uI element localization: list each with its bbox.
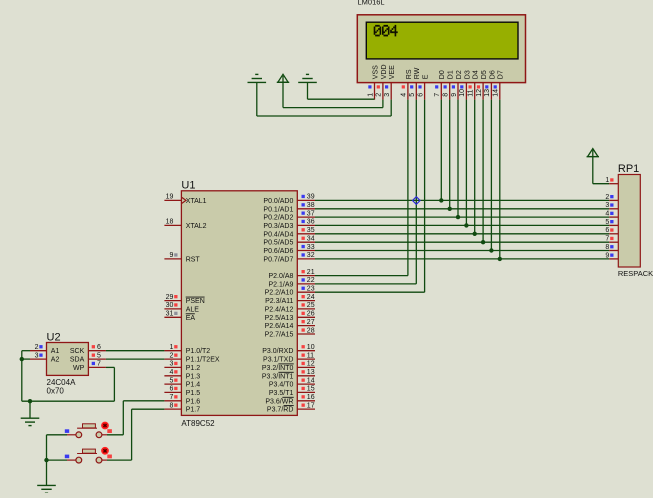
svg-text:P0.7/AD7: P0.7/AD7 — [263, 256, 293, 263]
U1 pin 15 P3.5/T1 — [297, 386, 315, 393]
U1 pin 36 P0.3/AD3 — [297, 219, 315, 226]
wire D1 bus row — [315, 208, 609, 210]
wire P1.6 net — [123, 400, 164, 402]
svg-text:P2.5/A13: P2.5/A13 — [265, 315, 294, 322]
svg-text:XTAL1: XTAL1 — [186, 198, 207, 205]
svg-text:39: 39 — [307, 194, 315, 201]
LCD text 004 digit 0 — [382, 25, 390, 36]
svg-text:8: 8 — [443, 93, 450, 97]
junction ground — [28, 399, 32, 403]
svg-text:12: 12 — [307, 361, 315, 368]
svg-text:SCK: SCK — [70, 348, 85, 355]
svg-text:6: 6 — [605, 227, 609, 234]
svg-text:29: 29 — [166, 294, 174, 301]
svg-text:P0.1/AD1: P0.1/AD1 — [263, 206, 293, 213]
ground (U2 net) — [21, 418, 40, 425]
node marker diamond — [413, 197, 421, 205]
RP1 pin 3 — [605, 202, 618, 209]
wire D7 bus row — [315, 258, 609, 260]
svg-text:3: 3 — [605, 202, 609, 209]
wire — [592, 157, 594, 184]
U1 pin 23 P2.2/A10 — [297, 286, 315, 293]
svg-text:5: 5 — [97, 352, 101, 359]
svg-text:6: 6 — [169, 386, 173, 393]
U1 pin 6 P1.5 — [164, 386, 181, 393]
LCD pin 1 VSS — [367, 65, 379, 100]
svg-text:P0.6/AD6: P0.6/AD6 — [263, 248, 293, 255]
svg-text:XTAL2: XTAL2 — [186, 223, 207, 230]
svg-text:AT89C52: AT89C52 — [181, 419, 215, 428]
svg-text:31: 31 — [166, 311, 174, 318]
wire A2 — [22, 358, 30, 360]
svg-text:23: 23 — [307, 286, 315, 293]
LCD pin 9 D2 — [451, 70, 463, 99]
RP1 pin 2 — [605, 194, 618, 201]
svg-text:33: 33 — [307, 244, 315, 251]
U1 pin 11 P3.1/TXD — [297, 352, 315, 359]
junction A2 net — [20, 357, 24, 361]
wire — [390, 100, 392, 116]
wire — [307, 83, 309, 100]
U1 pin 32 P0.7/AD7 — [297, 252, 315, 259]
svg-text:WP: WP — [73, 365, 85, 372]
svg-text:D0: D0 — [439, 70, 446, 79]
junction D6 — [489, 248, 493, 252]
svg-text:P2.0/A8: P2.0/A8 — [268, 273, 293, 280]
U1 pin 37 P0.2/AD2 — [297, 210, 315, 217]
wire D4 bus row — [315, 233, 609, 235]
svg-text:7: 7 — [434, 93, 441, 97]
svg-text:37: 37 — [307, 210, 315, 217]
svg-text:P3.5/T1: P3.5/T1 — [269, 390, 294, 397]
svg-text:D1: D1 — [448, 70, 455, 79]
svg-text:D2: D2 — [456, 70, 463, 79]
svg-text:P3.6/WR: P3.6/WR — [265, 398, 293, 405]
svg-text:D7: D7 — [498, 70, 505, 79]
U1 pin 3 P1.2 — [164, 361, 181, 368]
svg-text:4: 4 — [169, 369, 173, 376]
svg-text:P1.2: P1.2 — [186, 365, 201, 372]
svg-text:P0.0/AD0: P0.0/AD0 — [263, 198, 293, 205]
junction D0 — [439, 198, 443, 202]
svg-text:P2.2/A10: P2.2/A10 — [265, 290, 294, 297]
U1 pin 30 ALE — [164, 302, 181, 309]
wire — [21, 351, 23, 402]
push button 1 — [65, 422, 112, 437]
wire ground stem — [29, 401, 31, 418]
U1 pin 34 P0.5/AD5 — [297, 236, 315, 243]
svg-text:4: 4 — [605, 211, 609, 218]
power +5V (RP1 common) — [587, 149, 599, 157]
eeprom U2 body — [47, 343, 89, 376]
junction D1 — [448, 207, 452, 211]
svg-text:RW: RW — [414, 67, 421, 79]
svg-text:SDA: SDA — [70, 357, 85, 364]
svg-text:3: 3 — [384, 93, 391, 97]
wire — [256, 83, 258, 116]
U1 pin 21 P2.0/A8 — [297, 269, 315, 276]
U1 pin 13 P3.3/INT1 — [297, 369, 315, 376]
svg-text:8: 8 — [605, 244, 609, 251]
wire D5 vertical — [482, 100, 484, 243]
U1 pin 16 P3.6/WR — [297, 394, 315, 401]
wire RW net — [415, 100, 417, 284]
LCD pin 14 D7 — [493, 70, 505, 99]
svg-text:32: 32 — [307, 252, 315, 259]
RP1 pin 1 — [605, 177, 618, 184]
svg-text:4: 4 — [401, 93, 408, 97]
LCD text 004 digit 4 — [390, 25, 397, 36]
svg-text:U1: U1 — [181, 179, 195, 191]
RP1 pin 8 — [605, 244, 618, 251]
U1 pin 28 P2.7/A15 — [297, 327, 315, 334]
LCD pin 12 D5 — [476, 70, 488, 99]
svg-text:35: 35 — [307, 227, 315, 234]
svg-text:RST: RST — [186, 256, 201, 263]
svg-text:P2.6/A14: P2.6/A14 — [265, 323, 294, 330]
svg-text:P3.1/TXD: P3.1/TXD — [263, 357, 293, 364]
LCD pin 8 D1 — [443, 70, 455, 99]
U1 XTAL1 clock mark — [182, 197, 186, 203]
LCD pin 5 RW — [409, 67, 421, 99]
svg-text:7: 7 — [97, 361, 101, 368]
svg-text:9: 9 — [451, 93, 458, 97]
svg-text:RESPACK-8: RESPACK-8 — [618, 269, 653, 278]
U1 pin 7 P1.6 — [164, 394, 181, 401]
LCD pin 4 RS — [401, 69, 413, 99]
svg-text:P1.7: P1.7 — [186, 407, 201, 414]
svg-text:12: 12 — [476, 89, 483, 97]
U1 pin 9 RST — [164, 252, 181, 259]
microcontroller U1 body — [181, 191, 297, 416]
wire D3 vertical — [465, 100, 467, 226]
svg-text:A1: A1 — [51, 348, 60, 355]
svg-text:28: 28 — [307, 327, 315, 334]
svg-text:9: 9 — [169, 252, 173, 259]
wire E net — [424, 100, 426, 293]
wire button left net — [47, 434, 68, 436]
wire D1 vertical — [449, 100, 451, 209]
wire A1 — [22, 350, 30, 352]
wire P1.7 net — [132, 408, 165, 410]
RP1 pin 5 — [605, 219, 618, 226]
LCD LM016L body — [357, 15, 525, 83]
svg-text:34: 34 — [307, 236, 315, 243]
svg-text:D3: D3 — [464, 70, 471, 79]
U1 pin 14 P3.4/T0 — [297, 377, 315, 384]
RP1 pin 9 — [605, 252, 618, 259]
LCD text 004 digit 0 — [374, 25, 381, 36]
U2 pin 7 WP — [88, 361, 106, 368]
svg-text:P3.2/INT0: P3.2/INT0 — [262, 365, 294, 372]
U1 pin 35 P0.4/AD4 — [297, 227, 315, 234]
svg-text:P3.0/RXD: P3.0/RXD — [262, 348, 293, 355]
resistor pack RP1 body — [618, 175, 640, 268]
wire D7 vertical — [499, 100, 501, 259]
svg-text:P1.4: P1.4 — [186, 382, 201, 389]
wire D2 bus row — [315, 216, 609, 218]
LCD pin 2 VDD — [376, 64, 388, 99]
wire WP — [106, 366, 115, 368]
wire D5 bus row — [315, 241, 609, 243]
U1 pin 2 P1.1/T2EX — [164, 352, 181, 359]
LCD pin 3 VEE — [384, 65, 396, 100]
svg-text:21: 21 — [307, 269, 315, 276]
svg-text:P2.3/A11: P2.3/A11 — [265, 298, 293, 305]
svg-text:2: 2 — [169, 352, 173, 359]
svg-text:E: E — [423, 74, 430, 79]
LCD screen — [366, 22, 518, 59]
wire D6 vertical — [490, 100, 492, 251]
svg-text:5: 5 — [409, 93, 416, 97]
U1 pin 27 P2.6/A14 — [297, 319, 315, 326]
svg-text:D6: D6 — [489, 70, 496, 79]
junction D4 — [473, 232, 477, 236]
svg-text:38: 38 — [307, 202, 315, 209]
svg-text:VSS: VSS — [372, 65, 379, 79]
svg-text:9: 9 — [605, 252, 609, 259]
svg-text:5: 5 — [605, 219, 609, 226]
svg-text:VEE: VEE — [389, 65, 396, 79]
wire — [382, 100, 384, 108]
svg-text:VDD: VDD — [381, 64, 388, 79]
svg-text:P2.1/A9: P2.1/A9 — [268, 281, 293, 288]
svg-text:6: 6 — [417, 93, 424, 97]
svg-text:2: 2 — [605, 194, 609, 201]
U1 pin 39 P0.0/AD0 — [297, 194, 315, 201]
wire D0 vertical — [440, 100, 442, 201]
svg-text:P0.5/AD5: P0.5/AD5 — [263, 240, 293, 247]
LCD pin 11 D4 — [468, 70, 480, 99]
svg-text:3: 3 — [169, 361, 173, 368]
svg-text:19: 19 — [166, 194, 174, 201]
svg-text:P3.4/T0: P3.4/T0 — [269, 382, 294, 389]
junction D3 — [464, 223, 468, 227]
push button 2 — [65, 448, 112, 463]
svg-text:17: 17 — [307, 402, 315, 409]
svg-text:EA: EA — [186, 315, 196, 322]
U1 pin 19 XTAL1 — [164, 194, 181, 201]
svg-text:7: 7 — [605, 236, 609, 243]
svg-text:13: 13 — [307, 369, 315, 376]
U1 pin 12 P3.2/INT0 — [297, 361, 315, 368]
U2 pin 2 A1 — [30, 344, 47, 351]
U2 pin 5 SDA — [88, 352, 106, 359]
svg-text:D4: D4 — [473, 70, 480, 79]
svg-text:10: 10 — [459, 89, 466, 97]
svg-text:1: 1 — [605, 177, 609, 184]
LCD pin 6 E — [417, 74, 429, 99]
svg-text:P2.7/A15: P2.7/A15 — [265, 332, 294, 339]
wire ground run — [22, 400, 115, 402]
U1 pin 24 P2.3/A11 — [297, 294, 315, 301]
U1 pin 38 P0.1/AD1 — [297, 202, 315, 209]
svg-text:11: 11 — [468, 89, 475, 96]
svg-text:P0.2/AD2: P0.2/AD2 — [263, 215, 293, 222]
svg-text:16: 16 — [307, 394, 315, 401]
svg-text:P3.3/INT1: P3.3/INT1 — [262, 373, 294, 380]
U1 pin 10 P3.0/RXD — [297, 344, 315, 351]
U1 pin 1 P1.0/T2 — [164, 344, 181, 351]
svg-text:RP1: RP1 — [618, 163, 639, 175]
ground (VSS net) — [298, 74, 317, 82]
svg-text:14: 14 — [493, 89, 500, 97]
svg-text:26: 26 — [307, 311, 315, 318]
svg-text:A2: A2 — [51, 357, 60, 364]
U1 pin 25 P2.4/A12 — [297, 302, 315, 309]
U1 pin 31 EA — [164, 311, 181, 318]
U1 pin 22 P2.1/A9 — [297, 277, 315, 284]
svg-text:15: 15 — [307, 386, 315, 393]
svg-text:1: 1 — [169, 344, 173, 351]
svg-text:2: 2 — [35, 344, 39, 351]
svg-text:18: 18 — [166, 219, 174, 226]
svg-text:0x70: 0x70 — [47, 387, 65, 396]
RP1 pin 4 — [605, 211, 618, 218]
U1 pin 33 P0.6/AD6 — [297, 244, 315, 251]
svg-text:11: 11 — [307, 352, 314, 359]
LCD pin 13 D6 — [484, 70, 496, 99]
svg-text:30: 30 — [166, 302, 174, 309]
LCD pin 7 D0 — [434, 70, 446, 99]
svg-text:36: 36 — [307, 219, 315, 226]
svg-text:LM016L: LM016L — [358, 0, 385, 7]
svg-text:P1.6: P1.6 — [186, 398, 201, 405]
junction D7 — [498, 257, 502, 261]
U1 pin 8 P1.7 — [164, 402, 181, 409]
svg-text:27: 27 — [307, 319, 315, 326]
wire D3 bus row — [315, 224, 609, 226]
wire D2 vertical — [457, 100, 459, 218]
svg-text:3: 3 — [35, 352, 39, 359]
svg-text:ALE: ALE — [186, 306, 200, 313]
wire D4 vertical — [474, 100, 476, 234]
svg-text:P1.0/T2: P1.0/T2 — [186, 348, 211, 355]
svg-text:7: 7 — [169, 394, 173, 401]
svg-text:13: 13 — [484, 89, 491, 97]
svg-text:8: 8 — [169, 402, 173, 409]
svg-text:PSEN: PSEN — [186, 298, 205, 305]
U1 pin 18 XTAL2 — [164, 219, 181, 226]
wire SDA to P1.1 — [106, 358, 164, 360]
wire D0 bus row — [315, 199, 609, 201]
ground (VEE net) — [248, 74, 267, 82]
U1 pin 4 P1.3 — [164, 369, 181, 376]
svg-text:P2.4/A12: P2.4/A12 — [265, 306, 294, 313]
svg-text:RS: RS — [406, 69, 413, 79]
svg-text:24: 24 — [307, 294, 315, 301]
U2 pin 3 A2 — [30, 352, 47, 359]
wire — [282, 82, 284, 107]
U1 pin 29 PSEN — [164, 294, 181, 301]
svg-text:P0.4/AD4: P0.4/AD4 — [263, 231, 293, 238]
svg-text:P0.3/AD3: P0.3/AD3 — [263, 223, 293, 230]
wire D6 bus row — [315, 250, 609, 252]
svg-text:D5: D5 — [481, 70, 488, 79]
power +5V (VDD net) — [277, 74, 289, 82]
U1 pin 5 P1.4 — [164, 377, 181, 384]
U1 pin 17 P3.7/RD — [297, 402, 315, 409]
svg-text:10: 10 — [307, 344, 315, 351]
svg-text:P1.1/T2EX: P1.1/T2EX — [186, 357, 220, 364]
U2 pin 6 SCK — [88, 344, 106, 351]
svg-text:14: 14 — [307, 377, 315, 384]
svg-text:2: 2 — [376, 93, 383, 97]
svg-text:P3.7/RD: P3.7/RD — [267, 407, 293, 414]
svg-text:1: 1 — [367, 93, 374, 97]
svg-text:P1.5: P1.5 — [186, 390, 201, 397]
svg-text:22: 22 — [307, 277, 315, 284]
svg-text:5: 5 — [169, 377, 173, 384]
RP1 pin 6 — [605, 227, 618, 234]
junction D2 — [456, 215, 460, 219]
wire SCK to P1.0 — [106, 350, 164, 352]
ground (buttons) — [37, 485, 56, 493]
RP1 pin 7 — [605, 236, 618, 243]
junction button net — [44, 458, 48, 462]
LCD pin 10 D3 — [459, 70, 471, 99]
svg-text:U2: U2 — [47, 331, 61, 343]
svg-text:P1.3: P1.3 — [186, 373, 201, 380]
junction D5 — [481, 240, 485, 244]
svg-text:25: 25 — [307, 302, 315, 309]
svg-text:6: 6 — [97, 344, 101, 351]
wire RS net — [407, 100, 409, 276]
U1 pin 26 P2.5/A13 — [297, 311, 315, 318]
